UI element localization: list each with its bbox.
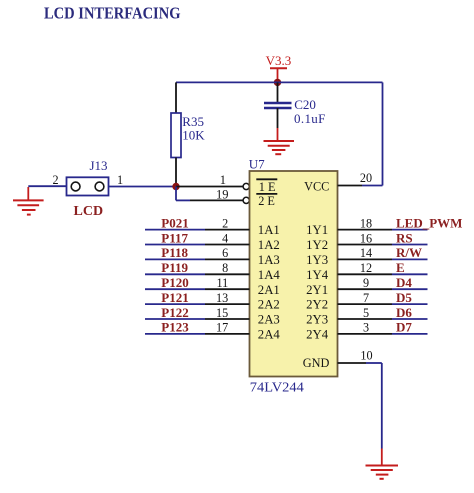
svg-text:1Y3: 1Y3 bbox=[306, 253, 328, 267]
pin 4 (input 1A2) bbox=[205, 244, 250, 246]
svg-text:15: 15 bbox=[216, 306, 228, 320]
wire net D5 bbox=[392, 303, 428, 305]
svg-text:1: 1 bbox=[117, 173, 123, 187]
svg-text:6: 6 bbox=[222, 246, 228, 260]
svg-text:U7: U7 bbox=[249, 156, 265, 171]
svg-text:D7: D7 bbox=[396, 320, 412, 335]
connector J13 bbox=[53, 158, 124, 196]
wire net P121 bbox=[145, 303, 205, 305]
wire net D4 bbox=[392, 288, 428, 290]
svg-text:11: 11 bbox=[216, 276, 228, 290]
svg-text:1A1: 1A1 bbox=[258, 223, 280, 237]
svg-text:LED_PWM: LED_PWM bbox=[396, 215, 462, 230]
ground below C20 bbox=[264, 141, 295, 154]
svg-text:10: 10 bbox=[360, 348, 372, 362]
svg-text:2A3: 2A3 bbox=[258, 313, 280, 327]
pin 3 (output 2Y4) bbox=[338, 333, 393, 335]
wire J13 to junction bbox=[109, 186, 177, 188]
pin 17 (input 2A4) bbox=[205, 333, 250, 335]
svg-text:5: 5 bbox=[363, 306, 369, 320]
pin 11 (input 2A1) bbox=[205, 288, 250, 290]
svg-text:2A2: 2A2 bbox=[258, 298, 280, 312]
wire net P021 bbox=[145, 229, 205, 231]
capacitor C20 bbox=[264, 82, 326, 141]
pin 9 (output 2Y1) bbox=[338, 288, 393, 290]
svg-text:14: 14 bbox=[360, 246, 372, 260]
svg-text:2Y2: 2Y2 bbox=[306, 298, 328, 312]
wire net R/W bbox=[392, 258, 428, 260]
svg-text:2: 2 bbox=[222, 216, 228, 230]
wire net P120 bbox=[145, 288, 205, 290]
svg-text:74LV244: 74LV244 bbox=[250, 380, 304, 395]
wire GND down bbox=[381, 363, 383, 449]
svg-text:10K: 10K bbox=[182, 127, 205, 142]
junction dot pin1 bbox=[172, 183, 179, 190]
svg-text:20: 20 bbox=[360, 171, 372, 185]
wire top horizontal bbox=[176, 81, 383, 83]
svg-text:2A4: 2A4 bbox=[258, 328, 281, 342]
junction dot at V3.3 bbox=[274, 79, 281, 86]
svg-text:7: 7 bbox=[363, 291, 369, 305]
wire net P122 bbox=[145, 318, 205, 320]
wire right vertical to VCC bbox=[382, 82, 384, 185]
ground left bbox=[13, 187, 44, 215]
svg-text:VCC: VCC bbox=[304, 179, 329, 193]
svg-text:1Y1: 1Y1 bbox=[306, 223, 328, 237]
svg-text:1Y2: 1Y2 bbox=[306, 238, 328, 252]
svg-text:P117: P117 bbox=[161, 230, 188, 245]
wire net P119 bbox=[145, 273, 205, 275]
svg-text:LCD INTERFACING: LCD INTERFACING bbox=[44, 3, 181, 22]
svg-text:2Y4: 2Y4 bbox=[306, 328, 329, 342]
pin name 1E with overbar bbox=[256, 179, 277, 194]
wire net P123 bbox=[145, 333, 205, 335]
svg-text:V3.3: V3.3 bbox=[266, 53, 292, 68]
pin 5 (output 2Y3) bbox=[338, 318, 393, 320]
svg-text:P021: P021 bbox=[161, 215, 188, 230]
svg-text:13: 13 bbox=[216, 291, 228, 305]
pin 7 (output 2Y2) bbox=[338, 303, 393, 305]
svg-text:P118: P118 bbox=[161, 245, 188, 260]
svg-text:8: 8 bbox=[222, 261, 228, 275]
svg-text:D4: D4 bbox=[396, 275, 412, 290]
svg-text:18: 18 bbox=[360, 216, 372, 230]
svg-text:4: 4 bbox=[222, 231, 228, 245]
svg-text:1A4: 1A4 bbox=[258, 268, 281, 282]
svg-text:2A1: 2A1 bbox=[258, 283, 280, 297]
pin 1 (1E) bbox=[176, 173, 249, 190]
pin name 2E with overbar bbox=[256, 194, 277, 208]
svg-text:9: 9 bbox=[363, 276, 369, 290]
svg-text:19: 19 bbox=[216, 188, 229, 202]
pin 18 (output 1Y1) bbox=[338, 229, 393, 231]
svg-text:1Y4: 1Y4 bbox=[306, 268, 329, 282]
svg-text:D5: D5 bbox=[396, 290, 412, 305]
pin 2 (input 1A1) bbox=[205, 229, 250, 231]
pin 13 (input 2A2) bbox=[205, 303, 250, 305]
wire net RS bbox=[392, 244, 428, 246]
svg-text:1A2: 1A2 bbox=[258, 238, 280, 252]
svg-text:D6: D6 bbox=[396, 305, 412, 320]
svg-text:E: E bbox=[396, 260, 405, 275]
wire net P118 bbox=[145, 258, 205, 260]
resistor R35 bbox=[171, 82, 205, 186]
pin 16 (output 1Y2) bbox=[338, 244, 393, 246]
svg-text:0.1uF: 0.1uF bbox=[294, 111, 326, 126]
pin 8 (input 1A4) bbox=[205, 273, 250, 275]
svg-text:1A3: 1A3 bbox=[258, 253, 280, 267]
svg-text:P122: P122 bbox=[161, 305, 188, 320]
wire net P117 bbox=[145, 244, 205, 246]
pin 6 (input 1A3) bbox=[205, 258, 250, 260]
pin 20 VCC wire bbox=[338, 171, 383, 186]
wire net E bbox=[392, 273, 428, 275]
svg-text:P120: P120 bbox=[161, 275, 188, 290]
svg-text:R/W: R/W bbox=[396, 245, 422, 260]
svg-text:LCD: LCD bbox=[74, 204, 104, 219]
svg-text:1: 1 bbox=[220, 173, 226, 187]
wire net D7 bbox=[392, 333, 428, 335]
pin 10 GND wire bbox=[338, 348, 382, 363]
ground bottom right bbox=[366, 466, 399, 479]
pin 19 (2E) bbox=[176, 187, 249, 204]
svg-text:GND: GND bbox=[303, 356, 330, 370]
pin 15 (input 2A3) bbox=[205, 318, 250, 320]
svg-text:17: 17 bbox=[216, 321, 228, 335]
svg-text:2: 2 bbox=[53, 173, 59, 187]
svg-text:RS: RS bbox=[396, 230, 413, 245]
svg-text:16: 16 bbox=[360, 231, 372, 245]
svg-text:P123: P123 bbox=[161, 320, 189, 335]
wire net LED_PWM bbox=[392, 229, 428, 231]
svg-text:J13: J13 bbox=[90, 158, 108, 173]
IC U7 74LV244 body bbox=[250, 171, 338, 377]
pin 12 (output 1Y4) bbox=[338, 273, 393, 275]
svg-text:2 E: 2 E bbox=[258, 194, 275, 208]
svg-text:2Y1: 2Y1 bbox=[306, 283, 328, 297]
pin 14 (output 1Y3) bbox=[338, 258, 393, 260]
wire net D6 bbox=[392, 318, 428, 320]
power V3.3 bbox=[266, 53, 292, 83]
wire ground to J13 bbox=[28, 185, 66, 187]
svg-text:P121: P121 bbox=[161, 290, 188, 305]
svg-text:3: 3 bbox=[363, 321, 369, 335]
svg-text:12: 12 bbox=[360, 261, 372, 275]
svg-text:1 E: 1 E bbox=[259, 180, 276, 194]
svg-text:P119: P119 bbox=[161, 260, 188, 275]
svg-text:2Y3: 2Y3 bbox=[306, 313, 328, 327]
svg-text:C20: C20 bbox=[294, 97, 316, 112]
